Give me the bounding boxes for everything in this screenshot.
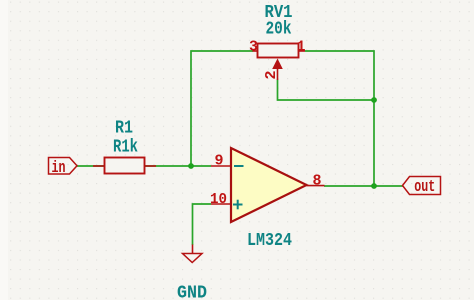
svg-text:2: 2 bbox=[263, 70, 280, 79]
svg-text:20k: 20k bbox=[266, 19, 292, 39]
svg-text:GND: GND bbox=[177, 283, 207, 300]
svg-text:9: 9 bbox=[214, 153, 223, 170]
svg-text:1: 1 bbox=[296, 39, 305, 56]
svg-text:10: 10 bbox=[210, 191, 227, 208]
svg-text:in: in bbox=[52, 158, 66, 177]
svg-text:R1k: R1k bbox=[113, 138, 138, 158]
svg-text:8: 8 bbox=[312, 173, 321, 190]
svg-text:3: 3 bbox=[249, 39, 258, 56]
svg-text:LM324: LM324 bbox=[247, 231, 292, 251]
svg-text:R1: R1 bbox=[115, 119, 133, 139]
svg-text:out: out bbox=[414, 177, 435, 196]
